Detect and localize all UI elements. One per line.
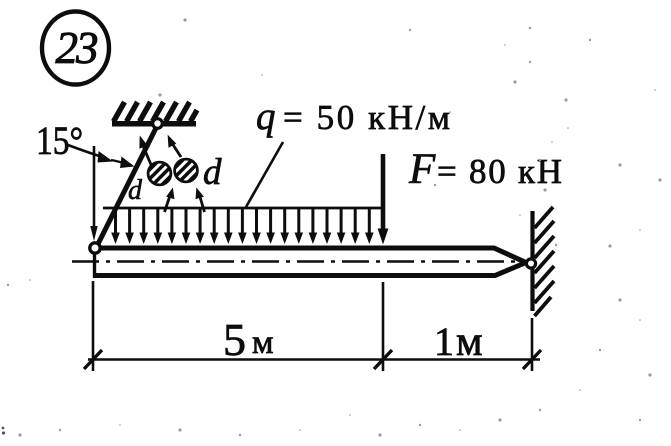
section circle 2 (rod cross-section d) — [173, 158, 198, 183]
wall hatch — [535, 207, 555, 316]
ceiling hatch — [114, 102, 198, 122]
svg-text:q: q — [256, 95, 276, 138]
distributed load top line — [103, 207, 383, 210]
dimension tick middle — [374, 350, 392, 369]
section circle 1 (rod cross-section d) — [147, 161, 172, 186]
leader arrow to section circle 2 — [168, 135, 181, 157]
leader from q to load line — [246, 142, 283, 207]
rod (15 deg tie) — [96, 125, 158, 249]
beam outline — [95, 246, 527, 278]
extension line right — [531, 318, 534, 371]
pin at ceiling — [153, 119, 163, 129]
svg-text:15°: 15° — [36, 118, 83, 163]
svg-text:1: 1 — [434, 319, 454, 364]
extension line middle — [382, 282, 385, 371]
vertical reference line — [90, 146, 97, 241]
pin at wall — [526, 259, 535, 268]
badge circle 23 — [42, 12, 109, 85]
label 15 degrees — [36, 118, 83, 163]
label d right — [203, 152, 222, 193]
svg-text:d: d — [128, 175, 143, 206]
label 1 m — [434, 319, 483, 365]
extension line left — [92, 281, 95, 371]
svg-text:5: 5 — [223, 314, 246, 365]
leader arrow under circle 1 — [165, 188, 175, 213]
label 5 m — [223, 314, 274, 365]
distributed load arrows — [111, 209, 373, 244]
svg-text:F: F — [408, 146, 436, 193]
scan mark bottom-left — [2, 427, 6, 435]
label d left — [128, 175, 143, 206]
label F = 80 kN — [408, 146, 562, 193]
svg-text:23: 23 — [56, 23, 98, 73]
pin at beam left end — [90, 243, 100, 253]
ceiling support bar — [112, 121, 196, 127]
svg-text:м: м — [252, 324, 274, 361]
svg-text:= 80 кН: = 80 кН — [437, 152, 562, 191]
dimension line — [88, 358, 540, 361]
leader arc from 15 deg to rod — [68, 145, 135, 168]
label q = 50 kN/m — [256, 95, 450, 138]
beam centerline (dash-dot) — [72, 260, 521, 262]
dimension tick right — [523, 350, 541, 369]
svg-text:м: м — [456, 319, 483, 365]
force F arrow — [378, 154, 389, 245]
wall line (right support) — [530, 211, 534, 311]
leader arrow under circle 2 — [196, 188, 205, 213]
dimension tick left — [84, 350, 102, 369]
leader arrow to section circle 1 (crosses rod, forms X) — [139, 136, 152, 168]
svg-text:d: d — [203, 152, 222, 193]
